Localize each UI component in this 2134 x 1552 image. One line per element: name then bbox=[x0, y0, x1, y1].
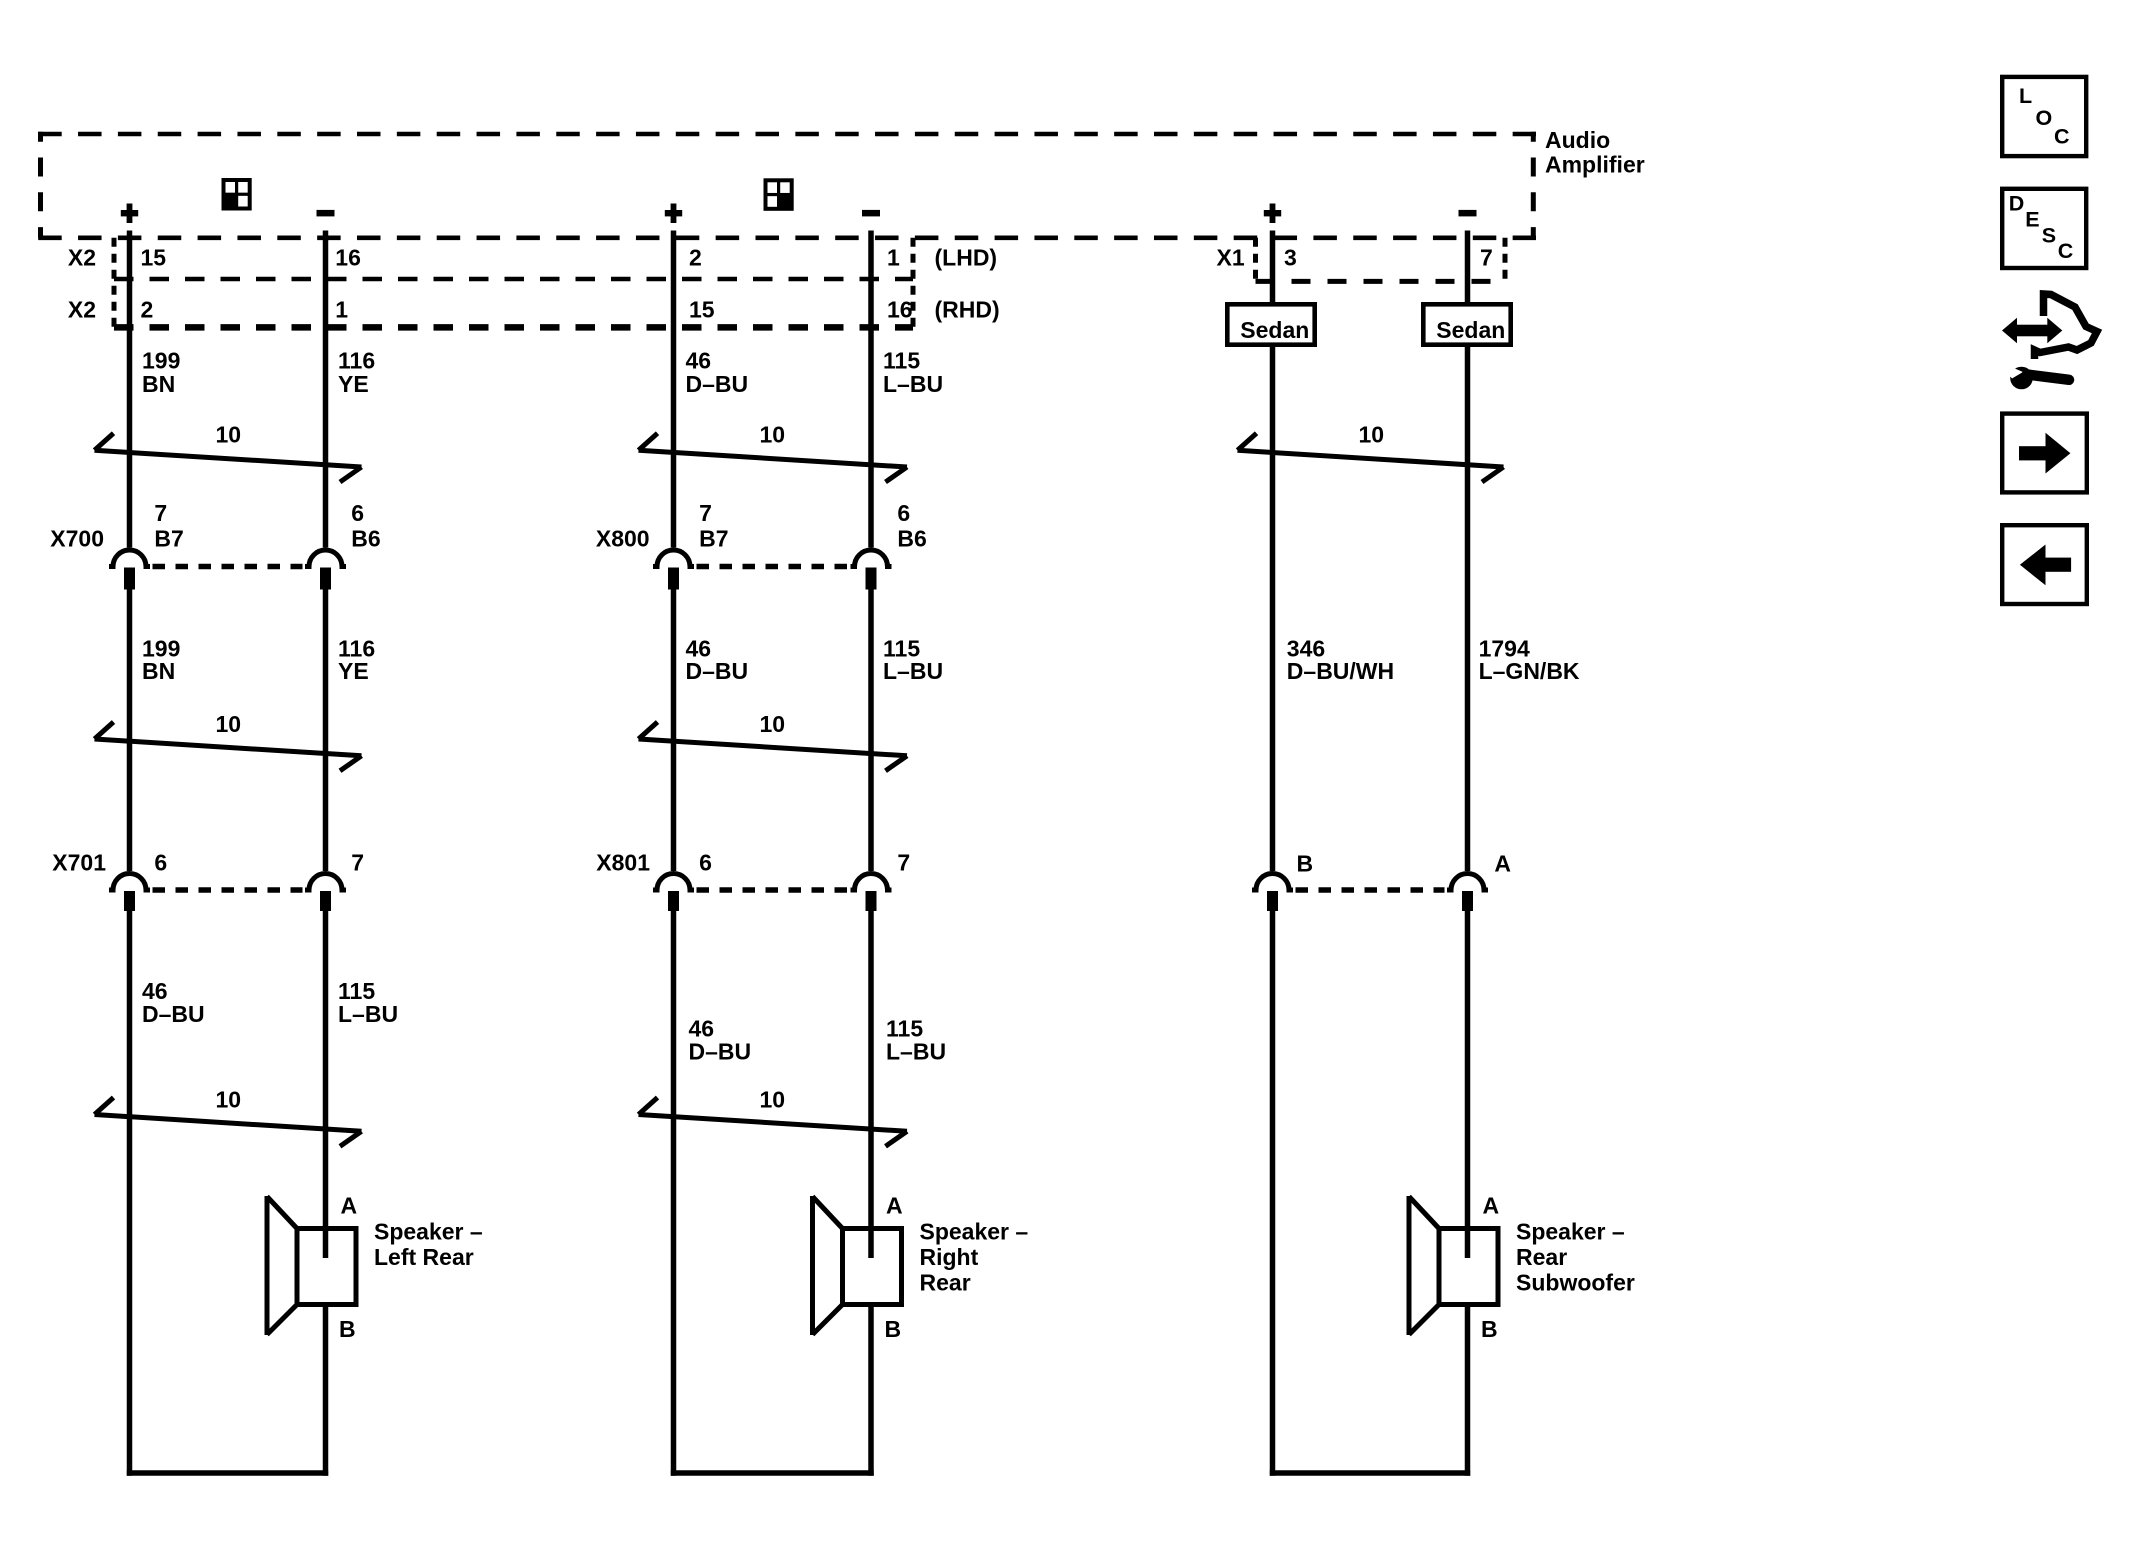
svg-text:B7: B7 bbox=[699, 526, 728, 552]
svg-text:L: L bbox=[2019, 84, 2032, 108]
svg-text:L–BU: L–BU bbox=[338, 1001, 398, 1027]
svg-text:Audio: Audio bbox=[1545, 127, 1610, 153]
svg-text:2: 2 bbox=[689, 245, 702, 271]
svg-text:A: A bbox=[886, 1193, 903, 1219]
svg-text:X700: X700 bbox=[50, 526, 104, 552]
svg-text:A: A bbox=[1494, 851, 1511, 877]
svg-text:BN: BN bbox=[142, 658, 175, 684]
svg-text:YE: YE bbox=[338, 371, 369, 397]
svg-text:Rear: Rear bbox=[1516, 1244, 1567, 1270]
svg-text:6: 6 bbox=[351, 500, 364, 526]
svg-text:B: B bbox=[885, 1316, 902, 1342]
svg-text:10: 10 bbox=[760, 711, 786, 737]
svg-text:Rear: Rear bbox=[920, 1269, 971, 1295]
svg-text:(LHD): (LHD) bbox=[935, 245, 998, 271]
svg-text:Subwoofer: Subwoofer bbox=[1516, 1269, 1635, 1295]
svg-text:D–BU: D–BU bbox=[689, 1039, 752, 1065]
svg-text:116: 116 bbox=[338, 348, 375, 374]
svg-text:A: A bbox=[341, 1193, 358, 1219]
svg-text:10: 10 bbox=[216, 1087, 242, 1113]
svg-text:7: 7 bbox=[897, 850, 910, 876]
svg-text:6: 6 bbox=[699, 850, 712, 876]
svg-text:YE: YE bbox=[338, 658, 369, 684]
svg-text:X2: X2 bbox=[68, 245, 96, 271]
svg-text:6: 6 bbox=[897, 500, 910, 526]
svg-text:D: D bbox=[2009, 191, 2025, 215]
svg-text:B: B bbox=[1297, 851, 1314, 877]
svg-text:10: 10 bbox=[216, 711, 242, 737]
svg-text:6: 6 bbox=[154, 850, 167, 876]
svg-text:BN: BN bbox=[142, 371, 175, 397]
svg-text:B7: B7 bbox=[154, 526, 183, 552]
svg-text:X800: X800 bbox=[596, 526, 650, 552]
svg-text:3: 3 bbox=[1284, 245, 1297, 271]
svg-text:7: 7 bbox=[1480, 245, 1493, 271]
svg-text:Speaker –: Speaker – bbox=[920, 1219, 1029, 1245]
svg-text:10: 10 bbox=[216, 422, 242, 448]
svg-text:115: 115 bbox=[883, 348, 920, 374]
svg-text:10: 10 bbox=[760, 422, 786, 448]
svg-text:7: 7 bbox=[699, 500, 712, 526]
svg-text:C: C bbox=[2054, 124, 2070, 148]
svg-text:B: B bbox=[1481, 1316, 1498, 1342]
svg-text:10: 10 bbox=[760, 1087, 786, 1113]
svg-text:L–BU: L–BU bbox=[883, 658, 943, 684]
svg-text:B: B bbox=[339, 1316, 356, 1342]
svg-text:1: 1 bbox=[887, 245, 900, 271]
svg-text:A: A bbox=[1483, 1193, 1500, 1219]
svg-text:199: 199 bbox=[142, 348, 180, 374]
svg-text:D–BU/WH: D–BU/WH bbox=[1287, 658, 1394, 684]
svg-text:B6: B6 bbox=[897, 526, 926, 552]
svg-text:15: 15 bbox=[141, 245, 167, 271]
svg-text:Left Rear: Left Rear bbox=[374, 1244, 474, 1270]
svg-text:D–BU: D–BU bbox=[686, 658, 749, 684]
svg-text:16: 16 bbox=[887, 297, 913, 323]
svg-text:L–BU: L–BU bbox=[886, 1039, 946, 1065]
svg-text:46: 46 bbox=[686, 348, 712, 374]
svg-text:15: 15 bbox=[689, 297, 715, 323]
svg-text:2: 2 bbox=[141, 297, 154, 323]
svg-text:7: 7 bbox=[351, 850, 364, 876]
svg-text:S: S bbox=[2042, 223, 2056, 247]
svg-text:Right: Right bbox=[920, 1244, 979, 1270]
svg-text:Sedan: Sedan bbox=[1240, 317, 1309, 343]
svg-text:Sedan: Sedan bbox=[1436, 317, 1505, 343]
svg-text:L–BU: L–BU bbox=[883, 371, 943, 397]
svg-text:Amplifier: Amplifier bbox=[1545, 152, 1645, 178]
svg-text:E: E bbox=[2025, 208, 2039, 232]
svg-text:L–GN/BK: L–GN/BK bbox=[1479, 658, 1580, 684]
svg-text:D–BU: D–BU bbox=[142, 1001, 205, 1027]
svg-text:Speaker –: Speaker – bbox=[1516, 1219, 1625, 1245]
svg-text:X1: X1 bbox=[1217, 245, 1245, 271]
svg-text:Speaker –: Speaker – bbox=[374, 1219, 483, 1245]
svg-text:16: 16 bbox=[335, 245, 361, 271]
svg-text:X2: X2 bbox=[68, 297, 96, 323]
svg-text:B6: B6 bbox=[351, 526, 380, 552]
svg-text:(RHD): (RHD) bbox=[935, 297, 1000, 323]
svg-text:1: 1 bbox=[335, 297, 348, 323]
svg-text:D–BU: D–BU bbox=[686, 371, 749, 397]
svg-text:X801: X801 bbox=[596, 850, 650, 876]
svg-text:X701: X701 bbox=[52, 850, 106, 876]
svg-text:7: 7 bbox=[154, 500, 167, 526]
svg-text:10: 10 bbox=[1359, 422, 1385, 448]
svg-text:O: O bbox=[2036, 106, 2053, 130]
svg-text:C: C bbox=[2058, 239, 2074, 263]
